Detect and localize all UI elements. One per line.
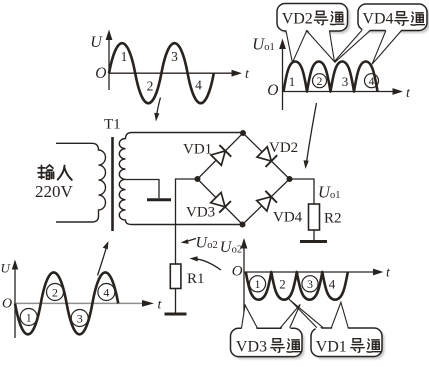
svg-text:3: 3 <box>171 49 178 64</box>
svg-text:VD2: VD2 <box>269 140 298 156</box>
svg-text:4: 4 <box>369 76 375 88</box>
svg-text:1: 1 <box>289 74 296 89</box>
svg-text:3: 3 <box>77 311 83 325</box>
svg-text:O: O <box>95 65 106 82</box>
svg-text:U: U <box>1 261 12 276</box>
svg-text:4: 4 <box>329 277 336 292</box>
svg-text:o1: o1 <box>330 190 341 201</box>
svg-text:U: U <box>90 34 103 51</box>
svg-text:O: O <box>267 82 278 99</box>
svg-text:2: 2 <box>52 285 58 299</box>
svg-text:VD1: VD1 <box>316 339 347 356</box>
svg-text:t: t <box>386 266 391 281</box>
svg-text:3: 3 <box>342 74 349 89</box>
svg-text:VD4: VD4 <box>273 210 303 226</box>
svg-text:220V: 220V <box>35 182 74 201</box>
svg-text:R2: R2 <box>324 211 342 227</box>
svg-text:1: 1 <box>26 310 32 324</box>
svg-text:o2: o2 <box>207 240 218 251</box>
svg-text:4: 4 <box>195 78 202 93</box>
svg-text:4: 4 <box>103 285 109 299</box>
svg-text:VD2: VD2 <box>282 10 313 27</box>
svg-text:3: 3 <box>307 277 313 291</box>
svg-text:2: 2 <box>279 277 286 292</box>
svg-text:VD4: VD4 <box>362 10 393 27</box>
svg-text:O: O <box>232 264 243 280</box>
svg-text:1: 1 <box>121 49 128 64</box>
svg-text:o2: o2 <box>232 244 243 255</box>
svg-text:VD1: VD1 <box>183 142 212 158</box>
svg-text:T1: T1 <box>104 117 121 133</box>
svg-text:VD3: VD3 <box>186 205 215 221</box>
svg-text:VD3: VD3 <box>236 339 267 356</box>
svg-text:2: 2 <box>317 76 323 88</box>
svg-text:t: t <box>245 67 250 82</box>
svg-text:O: O <box>2 297 12 312</box>
svg-text:t: t <box>406 86 411 101</box>
svg-text:2: 2 <box>147 79 154 94</box>
svg-text:o1: o1 <box>264 42 275 53</box>
svg-text:t: t <box>158 298 163 313</box>
svg-text:1: 1 <box>255 277 261 291</box>
svg-text:R1: R1 <box>187 271 205 287</box>
